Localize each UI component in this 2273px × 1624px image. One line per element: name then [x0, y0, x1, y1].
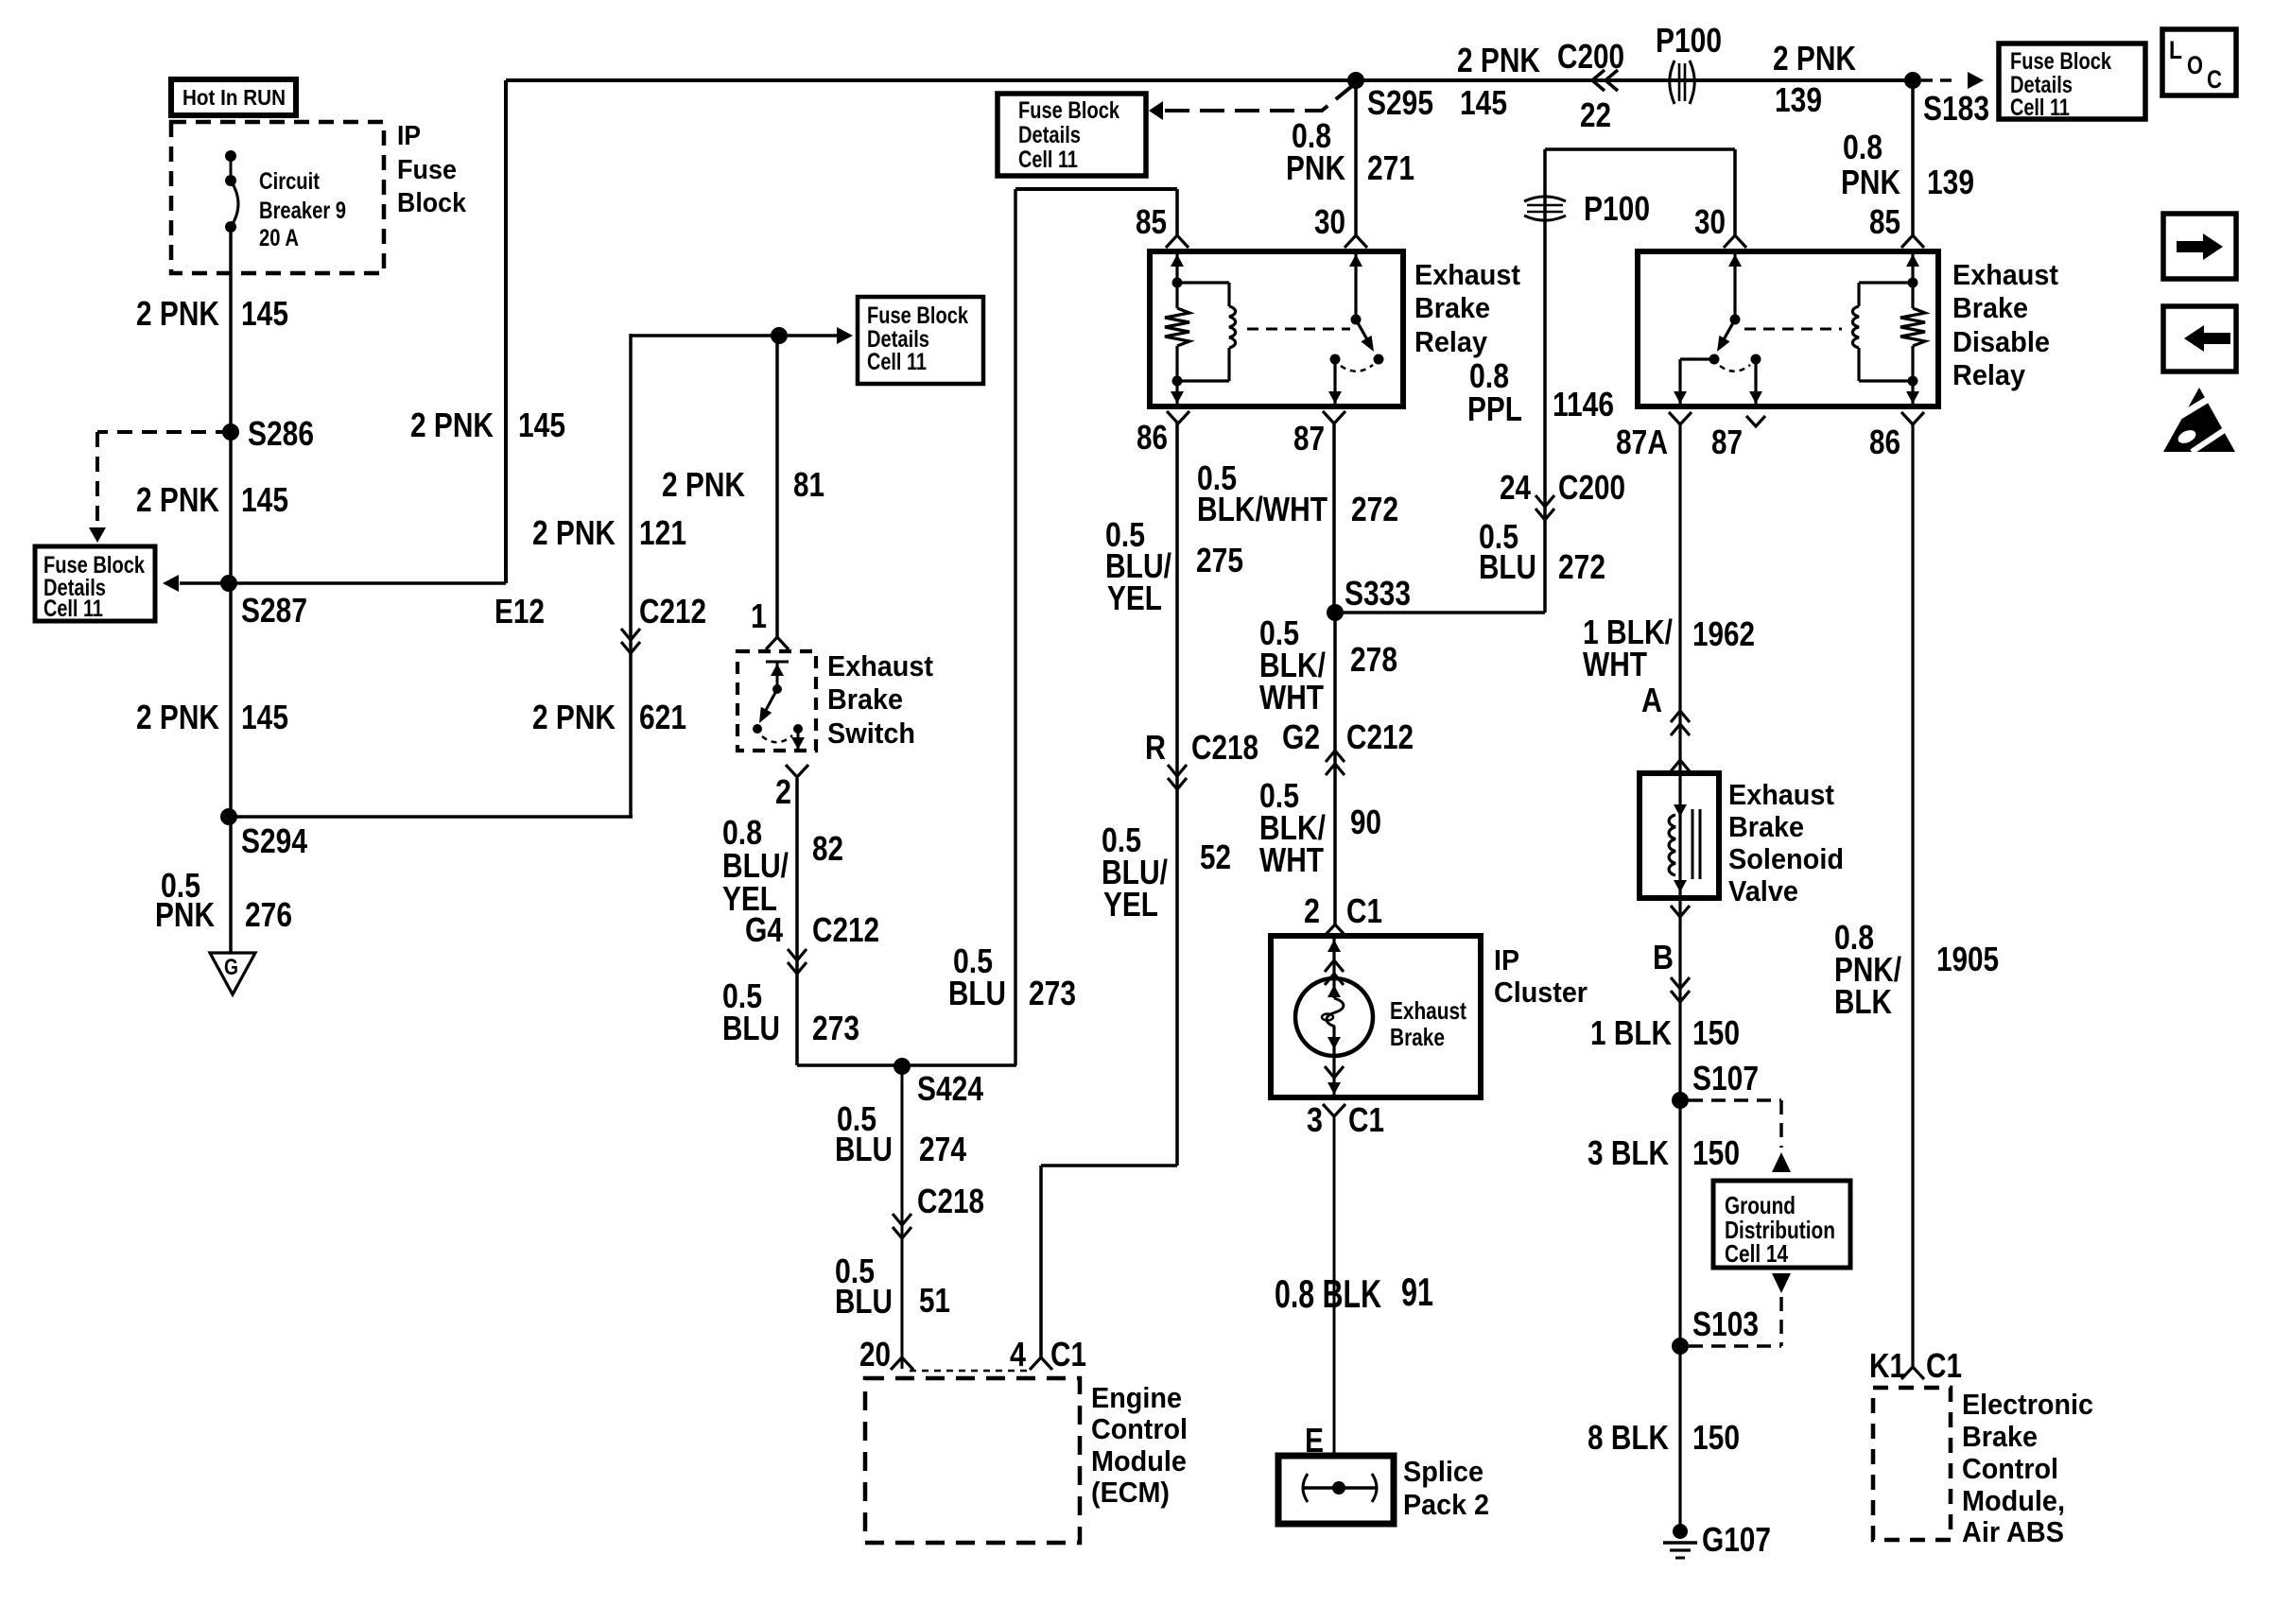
svg-text:271: 271: [1367, 148, 1414, 187]
svg-text:2 PNK: 2 PNK: [136, 480, 219, 519]
svg-text:G2: G2: [1282, 717, 1320, 756]
svg-text:273: 273: [1029, 974, 1076, 1012]
svg-text:(ECM): (ECM): [1091, 1476, 1170, 1509]
svg-text:1962: 1962: [1692, 614, 1755, 653]
svg-text:IP: IP: [397, 121, 421, 151]
svg-text:Fuse Block: Fuse Block: [867, 302, 968, 329]
svg-text:S103: S103: [1692, 1304, 1759, 1343]
svg-text:C212: C212: [1346, 717, 1414, 756]
svg-text:276: 276: [245, 895, 292, 934]
svg-text:Cluster: Cluster: [1494, 976, 1588, 1009]
svg-text:G107: G107: [1702, 1520, 1771, 1559]
svg-text:L: L: [2169, 36, 2182, 64]
svg-text:PNK: PNK: [155, 895, 215, 934]
svg-text:82: 82: [812, 829, 843, 868]
svg-text:30: 30: [1694, 202, 1726, 241]
svg-text:1 BLK: 1 BLK: [1590, 1013, 1672, 1052]
svg-text:Brake: Brake: [1952, 291, 2028, 324]
svg-text:YEL: YEL: [1107, 579, 1162, 617]
svg-text:P100: P100: [1584, 189, 1650, 228]
svg-text:Relay: Relay: [1414, 325, 1488, 358]
svg-text:1905: 1905: [1936, 940, 1999, 978]
svg-text:BLU: BLU: [1479, 547, 1536, 586]
svg-text:Exhaust: Exhaust: [1728, 778, 1834, 811]
svg-text:Cell 11: Cell 11: [1018, 147, 1078, 173]
svg-text:3: 3: [1307, 1100, 1323, 1139]
svg-text:IP: IP: [1494, 943, 1519, 976]
svg-text:PPL: PPL: [1467, 389, 1522, 428]
svg-text:0.8: 0.8: [1843, 128, 1883, 166]
svg-text:20 A: 20 A: [259, 225, 299, 251]
svg-text:51: 51: [919, 1281, 950, 1320]
svg-text:Exhaust: Exhaust: [1390, 996, 1466, 1025]
svg-text:C218: C218: [917, 1182, 984, 1220]
svg-text:BLU: BLU: [835, 1130, 893, 1168]
svg-text:E12: E12: [495, 592, 545, 631]
svg-text:4: 4: [1010, 1335, 1026, 1373]
svg-text:Air ABS: Air ABS: [1962, 1515, 2064, 1548]
svg-text:Control: Control: [1091, 1412, 1188, 1445]
svg-text:C218: C218: [1191, 728, 1258, 767]
svg-text:145: 145: [241, 698, 288, 736]
svg-text:Circuit: Circuit: [259, 168, 321, 195]
svg-text:20: 20: [859, 1335, 891, 1373]
svg-text:90: 90: [1350, 803, 1381, 841]
svg-text:C1: C1: [1346, 891, 1382, 930]
svg-text:BLU: BLU: [835, 1282, 893, 1321]
svg-text:2 PNK: 2 PNK: [1457, 41, 1540, 79]
svg-text:81: 81: [793, 465, 824, 504]
svg-text:S286: S286: [248, 414, 314, 453]
svg-text:8 BLK: 8 BLK: [1588, 1418, 1669, 1457]
svg-text:S295: S295: [1367, 83, 1433, 122]
svg-text:145: 145: [1460, 83, 1507, 122]
svg-text:2 PNK: 2 PNK: [532, 513, 616, 552]
svg-text:Valve: Valve: [1728, 874, 1798, 907]
svg-text:24: 24: [1500, 468, 1531, 507]
svg-text:S287: S287: [241, 591, 307, 630]
svg-text:Brake: Brake: [1728, 810, 1804, 843]
svg-text:86: 86: [1869, 423, 1900, 461]
svg-text:S333: S333: [1345, 574, 1411, 613]
svg-text:Cell 14: Cell 14: [1725, 1239, 1788, 1268]
svg-text:Module,: Module,: [1962, 1484, 2065, 1517]
svg-text:87: 87: [1711, 423, 1743, 461]
svg-text:22: 22: [1580, 95, 1611, 134]
svg-text:Exhaust: Exhaust: [1952, 258, 2058, 291]
svg-text:S107: S107: [1692, 1059, 1759, 1097]
svg-text:2 PNK: 2 PNK: [1773, 39, 1856, 78]
svg-text:C212: C212: [812, 910, 879, 949]
svg-text:PNK: PNK: [1841, 163, 1900, 201]
svg-text:S424: S424: [917, 1069, 983, 1108]
svg-text:Details: Details: [1018, 122, 1081, 148]
svg-text:Module: Module: [1091, 1444, 1187, 1477]
svg-text:52: 52: [1200, 838, 1231, 876]
svg-text:Switch: Switch: [827, 717, 915, 750]
svg-text:BLU: BLU: [722, 1009, 780, 1047]
svg-text:150: 150: [1692, 1133, 1740, 1172]
svg-text:Hot In RUN: Hot In RUN: [182, 85, 286, 110]
svg-text:A: A: [1641, 681, 1662, 719]
svg-text:C212: C212: [639, 592, 706, 631]
svg-text:Exhaust: Exhaust: [827, 649, 933, 682]
svg-text:Fuse: Fuse: [397, 155, 457, 185]
svg-text:R: R: [1145, 728, 1166, 767]
svg-text:Control: Control: [1962, 1452, 2058, 1485]
svg-text:87: 87: [1293, 419, 1325, 458]
svg-text:85: 85: [1869, 202, 1900, 241]
svg-text:2 PNK: 2 PNK: [662, 465, 745, 504]
svg-text:Splice: Splice: [1403, 1455, 1484, 1488]
svg-text:0.8 BLK: 0.8 BLK: [1275, 1271, 1381, 1316]
svg-text:Breaker 9: Breaker 9: [259, 198, 346, 224]
svg-text:BLK/WHT: BLK/WHT: [1197, 490, 1327, 528]
svg-text:273: 273: [812, 1009, 859, 1047]
svg-text:Block: Block: [397, 188, 467, 218]
svg-text:Brake: Brake: [1962, 1420, 2038, 1453]
svg-text:G4: G4: [745, 910, 783, 949]
svg-text:150: 150: [1692, 1013, 1740, 1052]
svg-text:O: O: [2187, 51, 2203, 79]
svg-text:1: 1: [751, 596, 767, 635]
svg-text:BLK: BLK: [1834, 982, 1892, 1021]
svg-text:C1: C1: [1926, 1346, 1962, 1385]
svg-text:274: 274: [919, 1130, 966, 1168]
svg-text:2 PNK: 2 PNK: [532, 698, 616, 736]
svg-text:2 PNK: 2 PNK: [410, 406, 494, 444]
svg-text:3 BLK: 3 BLK: [1588, 1133, 1669, 1172]
svg-text:S183: S183: [1923, 89, 1989, 128]
svg-text:K1: K1: [1869, 1346, 1905, 1385]
svg-text:2 PNK: 2 PNK: [136, 698, 219, 736]
svg-text:621: 621: [639, 698, 686, 736]
svg-text:Relay: Relay: [1952, 358, 2026, 391]
svg-text:Brake: Brake: [827, 682, 903, 716]
svg-text:Solenoid: Solenoid: [1728, 842, 1844, 875]
svg-text:1146: 1146: [1553, 385, 1614, 423]
svg-text:Brake: Brake: [1390, 1023, 1445, 1051]
svg-text:145: 145: [241, 294, 288, 333]
svg-text:WHT: WHT: [1259, 678, 1324, 717]
svg-text:30: 30: [1314, 202, 1345, 241]
svg-text:Cell 11: Cell 11: [2010, 95, 2070, 121]
svg-text:G: G: [224, 955, 238, 980]
svg-text:Fuse Block: Fuse Block: [2010, 48, 2111, 75]
svg-text:C1: C1: [1050, 1335, 1086, 1373]
svg-text:PNK: PNK: [1286, 148, 1345, 187]
svg-text:275: 275: [1196, 541, 1243, 579]
svg-text:145: 145: [241, 480, 288, 519]
svg-text:P100: P100: [1656, 21, 1722, 60]
svg-text:Pack 2: Pack 2: [1403, 1488, 1489, 1521]
svg-text:2: 2: [1304, 891, 1320, 930]
svg-text:B: B: [1653, 938, 1674, 976]
svg-text:WHT: WHT: [1259, 840, 1324, 879]
svg-text:Cell 11: Cell 11: [43, 596, 103, 622]
svg-text:2 PNK: 2 PNK: [136, 294, 219, 333]
svg-text:Fuse Block: Fuse Block: [1018, 97, 1119, 124]
svg-text:Disable: Disable: [1952, 325, 2050, 358]
svg-text:S294: S294: [241, 821, 307, 860]
svg-text:87A: 87A: [1616, 423, 1668, 461]
svg-text:C1: C1: [1348, 1100, 1384, 1139]
svg-text:C: C: [2207, 65, 2222, 94]
svg-text:86: 86: [1136, 418, 1168, 457]
svg-text:Engine: Engine: [1091, 1381, 1182, 1414]
svg-text:2: 2: [775, 772, 791, 811]
svg-text:139: 139: [1775, 80, 1822, 119]
svg-text:145: 145: [518, 406, 565, 444]
svg-text:85: 85: [1136, 202, 1167, 241]
svg-text:BLU: BLU: [948, 974, 1006, 1012]
svg-text:Cell 11: Cell 11: [867, 349, 927, 375]
svg-text:139: 139: [1927, 163, 1974, 201]
svg-text:C200: C200: [1558, 468, 1625, 507]
svg-text:Brake: Brake: [1414, 291, 1490, 324]
svg-text:Electronic: Electronic: [1962, 1388, 2093, 1421]
svg-text:150: 150: [1692, 1418, 1740, 1457]
svg-text:WHT: WHT: [1583, 645, 1647, 683]
svg-text:272: 272: [1558, 547, 1605, 586]
svg-text:YEL: YEL: [1103, 885, 1158, 924]
svg-text:91: 91: [1401, 1270, 1433, 1314]
svg-text:121: 121: [639, 513, 686, 552]
svg-text:272: 272: [1351, 490, 1398, 528]
svg-text:Exhaust: Exhaust: [1414, 258, 1520, 291]
svg-text:C200: C200: [1557, 37, 1624, 76]
svg-text:278: 278: [1350, 640, 1397, 679]
